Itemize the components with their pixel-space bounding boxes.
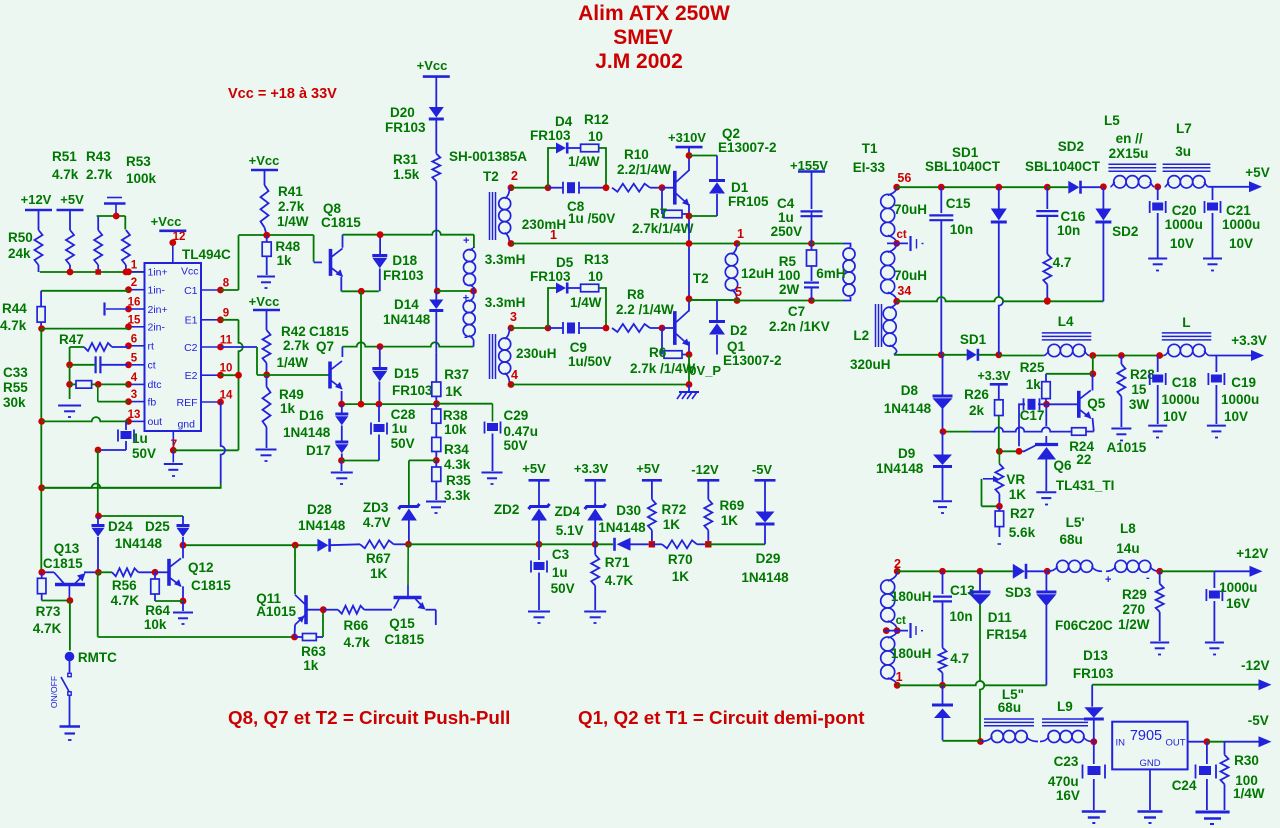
inductor L9 (1040, 699, 1097, 745)
svg-text:D29: D29 (756, 551, 781, 566)
svg-text:230mH: 230mH (522, 217, 566, 232)
ground 0V_P (677, 385, 699, 400)
svg-text:OUT: OUT (1165, 738, 1185, 749)
resistor R29 (1118, 571, 1164, 641)
svg-text:1u: 1u (778, 210, 794, 225)
diode D11 (970, 571, 1028, 745)
wire R43-R53 top (97, 213, 126, 220)
ground C29 (482, 473, 503, 485)
node RMTC (65, 601, 117, 666)
resistor R53 (122, 154, 157, 272)
svg-text:1k: 1k (303, 658, 319, 673)
svg-text:-12V: -12V (691, 462, 719, 477)
power +5V ZD2 (522, 461, 549, 506)
wire Q7 base (257, 374, 329, 376)
svg-text:T2: T2 (483, 169, 499, 184)
wire loop left (98, 572, 298, 640)
resistor R34 (432, 423, 471, 472)
resistor R7 (632, 188, 694, 236)
power +5V (57, 192, 85, 210)
resistor R28 (1117, 356, 1155, 428)
svg-text:C4: C4 (777, 196, 795, 211)
svg-text:Vcc: Vcc (181, 266, 199, 278)
wire R47gnd (69, 347, 71, 365)
svg-text:C1: C1 (184, 285, 198, 297)
svg-text:R56: R56 (112, 578, 137, 593)
resistor R72 (648, 499, 686, 547)
svg-text:1: 1 (737, 227, 744, 241)
capacitor C33 (3, 356, 129, 380)
svg-text:-5V: -5V (752, 462, 773, 477)
svg-text:2in+: 2in+ (148, 304, 168, 316)
output -12V (1092, 658, 1271, 690)
wire rail34 (897, 297, 1104, 305)
svg-text:2.7k /1/4W: 2.7k /1/4W (630, 361, 696, 376)
resistor R37 (432, 353, 469, 408)
svg-text:3.3mH: 3.3mH (485, 252, 526, 267)
svg-text:1k: 1k (280, 401, 296, 416)
power +310V (668, 130, 706, 171)
power -12V R69 (691, 462, 719, 499)
capacitor C16 (1036, 187, 1085, 254)
svg-text:Q8, Q7 et T2 = Circuit Push-Pu: Q8, Q7 et T2 = Circuit Push-Pull (228, 707, 510, 728)
diode SD1b (941, 332, 1002, 361)
diode D30 (595, 503, 649, 551)
wire L2 out (894, 351, 945, 358)
svg-text:1: 1 (896, 670, 903, 684)
svg-text:+12V: +12V (1236, 546, 1268, 561)
svg-text:SD1: SD1 (952, 145, 979, 160)
svg-text:R41: R41 (278, 184, 303, 199)
svg-text:L: L (1182, 315, 1190, 330)
svg-text:C29: C29 (504, 408, 529, 423)
wire rail node1 (511, 240, 740, 247)
resistor R47 (59, 332, 129, 351)
power +5V R72 (636, 461, 662, 499)
wire left rail (38, 329, 45, 576)
TL494 pin 7 gnd (170, 419, 195, 454)
wire Q12 collector (182, 545, 184, 558)
diode D13 (1073, 648, 1114, 742)
svg-text:+5V: +5V (1245, 165, 1269, 180)
svg-text:1K: 1K (721, 513, 739, 528)
resistor R51 (52, 149, 79, 272)
wire Q11 collector (294, 545, 296, 594)
capacitor C29 (485, 408, 539, 471)
svg-text:180uH: 180uH (891, 646, 932, 661)
capacitor C24 (1172, 742, 1216, 810)
svg-text:C7: C7 (788, 304, 805, 319)
resistor R55 (3, 380, 129, 410)
capacitor C19 (1208, 356, 1259, 425)
inductor L5 (1104, 113, 1161, 190)
svg-text:D28: D28 (307, 502, 332, 517)
svg-text:C1815: C1815 (321, 215, 361, 230)
resistor R6 (630, 328, 696, 376)
svg-text:Q13: Q13 (54, 541, 80, 556)
inductor T2 coil1 3.3mH (463, 235, 525, 290)
resistor R27 (995, 506, 1035, 544)
wire fb (944, 427, 1072, 431)
svg-text:2.7k: 2.7k (278, 199, 305, 214)
svg-text:2: 2 (511, 169, 518, 183)
caption demi-pont (578, 707, 865, 728)
wire pin3 (98, 384, 129, 401)
svg-text:L9: L9 (1057, 699, 1073, 714)
svg-text:SD2: SD2 (1112, 224, 1138, 239)
zener ZD3 (363, 500, 420, 544)
svg-text:ON/OFF: ON/OFF (49, 676, 59, 708)
svg-text:FR103: FR103 (1073, 666, 1114, 681)
resistor R43 (86, 149, 113, 272)
wire Q1 base (662, 327, 673, 329)
svg-text:1k: 1k (1026, 377, 1042, 392)
resistor R5 (778, 244, 817, 298)
svg-text:2.2n /1KV: 2.2n /1KV (769, 319, 830, 334)
title SMEV (613, 26, 673, 49)
svg-text:4.7k: 4.7k (344, 635, 371, 650)
svg-text:gnd: gnd (177, 419, 195, 431)
power +3.3V R26 (977, 369, 1011, 384)
svg-text:T1: T1 (862, 141, 878, 156)
svg-text:2W: 2W (779, 282, 800, 297)
svg-text:C9: C9 (570, 340, 587, 355)
svg-text:14u: 14u (1116, 541, 1139, 556)
svg-text:-5V: -5V (1248, 713, 1269, 728)
svg-text:4.7K: 4.7K (33, 621, 62, 636)
svg-text:R12: R12 (584, 112, 609, 127)
svg-text:1: 1 (550, 228, 557, 242)
label T1 (853, 141, 886, 175)
svg-text:+5V: +5V (60, 192, 84, 207)
svg-text:D2: D2 (730, 323, 747, 338)
svg-text:FR103: FR103 (530, 269, 571, 284)
diode D1 (709, 156, 769, 217)
svg-text:-: - (464, 278, 468, 290)
svg-text:50V: 50V (391, 436, 415, 451)
wire coil1 bottom (473, 287, 476, 291)
svg-text:D8: D8 (901, 383, 919, 398)
svg-text:3.3k: 3.3k (444, 488, 471, 503)
svg-text:+: + (463, 293, 469, 305)
wire ref node (996, 448, 1022, 455)
svg-text:7905: 7905 (1130, 728, 1162, 744)
svg-text:12uH: 12uH (741, 266, 774, 281)
svg-text:1in-: 1in- (148, 285, 166, 297)
svg-text:C23: C23 (1054, 754, 1079, 769)
winding T1 primary bot 70uH (881, 243, 927, 304)
wire Q7 emitter (341, 391, 343, 404)
inductor L2 320uH (850, 301, 897, 372)
svg-text:L2: L2 (853, 328, 869, 343)
ground C23 (1082, 812, 1106, 824)
svg-text:+310V: +310V (668, 130, 706, 145)
node D14 top (434, 288, 441, 295)
resistor 4.7 12V (939, 648, 970, 689)
winding 230mH (499, 169, 566, 247)
svg-text:3: 3 (131, 389, 137, 401)
svg-text:R43: R43 (86, 149, 111, 164)
svg-text:R64: R64 (145, 603, 170, 618)
power +Vcc D20 (417, 58, 450, 77)
capacitor C28 (371, 404, 416, 460)
svg-text:11: 11 (220, 335, 233, 347)
svg-text:+: + (463, 235, 469, 247)
svg-text:ZD2: ZD2 (494, 502, 520, 517)
svg-text:1000u: 1000u (1221, 392, 1259, 407)
diode D25 (177, 516, 190, 545)
diode D24 (92, 516, 171, 572)
svg-text:12: 12 (173, 231, 186, 243)
svg-text:E13007-2: E13007-2 (723, 353, 782, 368)
svg-text:C21: C21 (1226, 203, 1251, 218)
svg-text:C16: C16 (1061, 209, 1086, 224)
svg-text:250V: 250V (771, 224, 803, 239)
wire Q5 coll drop (1046, 356, 1096, 378)
power +3.3V ZD4 (574, 461, 609, 506)
svg-text:R49: R49 (279, 387, 304, 402)
svg-text:50V: 50V (551, 581, 575, 596)
svg-text:5: 5 (131, 352, 138, 364)
ground pin7 (164, 450, 183, 476)
svg-text:50V: 50V (504, 438, 528, 453)
node R42 R49 (263, 371, 270, 378)
svg-text:R7: R7 (650, 206, 667, 221)
svg-text:Q1: Q1 (727, 339, 746, 354)
svg-text:+3.3V: +3.3V (1231, 333, 1267, 348)
svg-text:+155V: +155V (790, 158, 828, 173)
svg-text:R30: R30 (1234, 753, 1259, 768)
svg-text:1N4148: 1N4148 (741, 570, 789, 585)
svg-text:ct: ct (896, 615, 906, 627)
svg-text:4.7K: 4.7K (111, 593, 140, 608)
svg-text:16V: 16V (1056, 788, 1080, 803)
svg-text:ct: ct (897, 229, 907, 241)
svg-text:1N4148: 1N4148 (876, 461, 924, 476)
resistor R35 (432, 460, 471, 503)
resistor R8 (612, 287, 674, 332)
svg-text:16: 16 (128, 297, 141, 309)
svg-text:L5: L5 (1104, 113, 1120, 128)
wire pin1 net (40, 269, 145, 276)
svg-text:D20: D20 (390, 105, 415, 120)
svg-text:L7: L7 (1176, 121, 1192, 136)
wire pin2 (41, 290, 128, 292)
wire ZD3 link (409, 460, 436, 505)
svg-text:SH-001385A: SH-001385A (449, 149, 527, 164)
center tap 12V (883, 615, 923, 638)
diode D18 (372, 231, 424, 291)
resistor R70 (652, 540, 705, 584)
svg-text:EI-33: EI-33 (853, 160, 886, 175)
capacitor C20 (1150, 187, 1203, 258)
capacitor C1000u16V (1206, 571, 1257, 641)
diode SD3 (1005, 564, 1051, 600)
power +Vcc R42 (249, 294, 280, 310)
capacitor C17 (1019, 398, 1047, 446)
svg-text:180uH: 180uH (891, 589, 932, 604)
ground C3 (528, 612, 550, 624)
svg-text:FR154: FR154 (986, 627, 1027, 642)
resistor R48 (262, 235, 300, 275)
resistor R64 (144, 572, 183, 632)
wire D14 to coil (437, 288, 477, 295)
svg-text:C1815: C1815 (309, 324, 349, 339)
svg-text:10: 10 (588, 129, 603, 144)
svg-text:230uH: 230uH (516, 346, 557, 361)
wire Q2 base (662, 187, 673, 189)
svg-text:Q15: Q15 (389, 616, 415, 631)
svg-text:10: 10 (588, 269, 603, 284)
diode D28 (298, 502, 360, 552)
svg-text:1/4W: 1/4W (277, 355, 309, 370)
inductor L4 (1042, 314, 1092, 357)
svg-text:Q6: Q6 (1054, 458, 1073, 473)
wire D17-C28 (342, 460, 380, 462)
resistor R25 (1020, 360, 1051, 408)
ground D9 (933, 501, 952, 513)
wire C1 out (221, 235, 323, 290)
svg-text:SD2: SD2 (1058, 139, 1084, 154)
svg-text:D4: D4 (555, 114, 573, 129)
resistor R66 (323, 606, 392, 650)
svg-text:10V: 10V (1229, 236, 1253, 251)
svg-text:R28: R28 (1130, 367, 1155, 382)
svg-text:+12V: +12V (21, 192, 52, 207)
svg-text:R70: R70 (668, 552, 693, 567)
diode F06C20C (1036, 571, 1113, 685)
svg-text:REF: REF (177, 397, 198, 409)
diode D8 (884, 355, 953, 435)
svg-text:270: 270 (1123, 602, 1146, 617)
wire Q8em to y404 (360, 291, 362, 404)
wire Q1 collector (686, 244, 737, 312)
winding 230uH (499, 310, 557, 388)
svg-text:0V_P: 0V_P (689, 363, 721, 378)
svg-text:+Vcc: +Vcc (249, 153, 280, 168)
wire R37 to C29 (437, 404, 493, 422)
svg-text:R66: R66 (344, 618, 369, 633)
svg-text:C2: C2 (184, 342, 198, 354)
svg-text:J.M 2002: J.M 2002 (595, 50, 683, 73)
resistor R67 (360, 540, 412, 581)
svg-text:R44: R44 (2, 301, 27, 316)
svg-text:2.7k: 2.7k (283, 338, 310, 353)
resistor R73 (33, 569, 74, 636)
resistor R44 (0, 291, 45, 333)
svg-text:R6: R6 (649, 345, 667, 360)
capacitor C15 (929, 187, 973, 355)
wire 0V_P (511, 363, 721, 388)
wire 3.3 rail2 (1089, 352, 1164, 359)
svg-text:24k: 24k (8, 246, 31, 261)
svg-text:C1815: C1815 (384, 632, 424, 647)
potentiometer VR 1K (982, 451, 1027, 509)
ground R29 (1150, 643, 1169, 655)
resistor R42 (263, 310, 310, 375)
svg-text:FR103: FR103 (385, 120, 426, 135)
svg-text:R35: R35 (446, 473, 471, 488)
diode mid -5V (932, 685, 981, 741)
svg-text:1/4W: 1/4W (1233, 786, 1265, 801)
IC Q6 TL431 (1019, 404, 1114, 493)
resistor R71 (591, 544, 633, 610)
ground R48 (257, 277, 275, 289)
svg-text:FR103: FR103 (392, 383, 433, 398)
svg-text:R25: R25 (1020, 360, 1045, 375)
svg-text:1K: 1K (663, 517, 681, 532)
wire node1b (737, 240, 815, 247)
svg-text:R69: R69 (720, 498, 745, 513)
ground C21 (1203, 259, 1222, 271)
wire pin15 (38, 325, 128, 332)
svg-text:0.47u: 0.47u (504, 424, 539, 439)
ground R28 (1111, 429, 1131, 441)
pin16 input tie (105, 303, 129, 316)
svg-text:2.2 /1/4W: 2.2 /1/4W (616, 302, 674, 317)
resistor R12 (568, 112, 609, 188)
svg-text:+3.3V: +3.3V (574, 461, 609, 476)
svg-text:R37: R37 (444, 367, 469, 382)
svg-text:+3.3V: +3.3V (977, 369, 1011, 383)
capacitor C13 (933, 571, 975, 648)
svg-text:C28: C28 (391, 407, 416, 422)
svg-text:4.7V: 4.7V (363, 515, 391, 530)
wire Q12 emitter (180, 586, 187, 604)
svg-text:ZD3: ZD3 (363, 500, 389, 515)
ground switch (60, 727, 81, 741)
svg-text:C1815: C1815 (191, 578, 231, 593)
svg-text:E13007-2: E13007-2 (718, 140, 777, 155)
svg-text:SD3: SD3 (1005, 585, 1032, 600)
wire pin13 (42, 417, 129, 421)
svg-text:-12V: -12V (1241, 658, 1270, 673)
svg-text:D1: D1 (731, 180, 749, 195)
svg-text:10V: 10V (1170, 236, 1194, 251)
ground C20 (1148, 259, 1167, 271)
svg-text:2.7k/1/4W: 2.7k/1/4W (632, 221, 694, 236)
svg-text:34: 34 (897, 284, 911, 298)
svg-text:R72: R72 (662, 502, 687, 517)
diode D29 (741, 512, 789, 586)
output +5V (1208, 165, 1269, 192)
inductor 6mH (812, 244, 856, 301)
svg-text:6: 6 (131, 333, 137, 345)
svg-text:SMEV: SMEV (613, 26, 673, 49)
svg-text:16V: 16V (1226, 596, 1250, 611)
wire fb right (409, 541, 543, 548)
svg-text:SBL1040CT: SBL1040CT (1025, 159, 1101, 174)
svg-text:1N4148: 1N4148 (884, 401, 932, 416)
diode SD1a (925, 145, 1007, 355)
svg-text:4.7k: 4.7k (52, 167, 79, 182)
svg-text:100: 100 (778, 268, 801, 283)
diode D16 (283, 404, 348, 441)
capacitor C18 (1150, 356, 1200, 425)
svg-text:Q1, Q2 et T1 = Circuit demi-po: Q1, Q2 et T1 = Circuit demi-pont (578, 707, 865, 728)
svg-text:C18: C18 (1172, 375, 1197, 390)
resistor R49 (263, 375, 304, 448)
diode SD2b (1095, 187, 1138, 301)
svg-text:1u: 1u (392, 421, 408, 436)
svg-text:R51: R51 (52, 149, 77, 164)
resistor R24 (1069, 428, 1094, 467)
svg-text:-: - (1146, 572, 1150, 584)
resistor R30 (1221, 742, 1265, 810)
svg-text:+5V: +5V (522, 461, 546, 476)
wire 7905 gnd (1149, 769, 1151, 810)
svg-text:68u: 68u (1060, 532, 1083, 547)
